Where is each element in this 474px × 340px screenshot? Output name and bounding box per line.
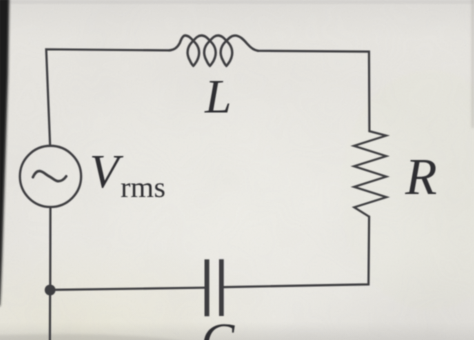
svg-text:rms: rms	[121, 171, 166, 204]
svg-text:V: V	[90, 146, 124, 199]
svg-text:L: L	[204, 71, 232, 124]
svg-text:C: C	[201, 312, 235, 340]
svg-text:R: R	[404, 149, 437, 206]
